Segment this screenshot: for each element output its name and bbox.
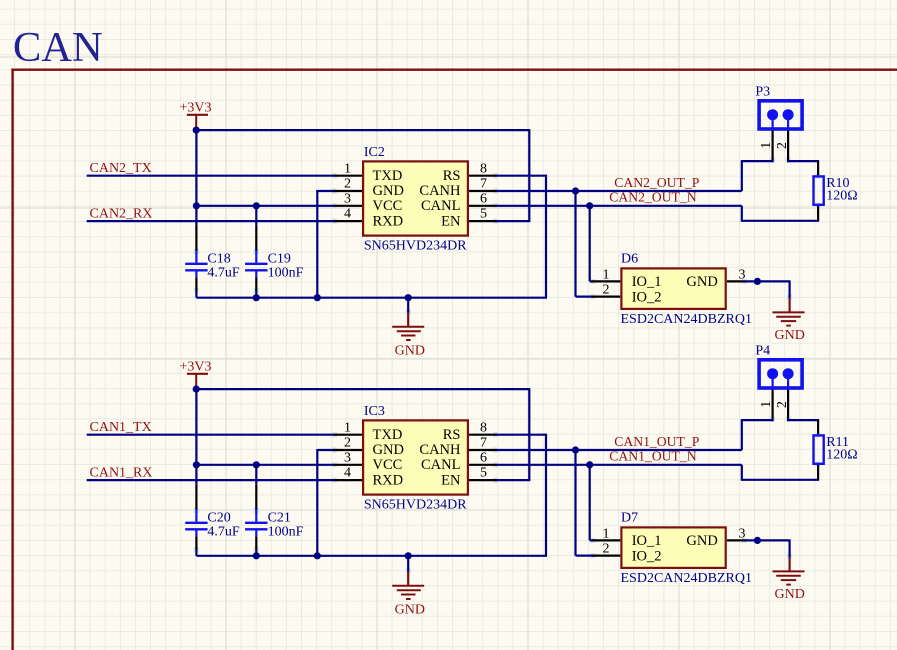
svg-text:ESD2CAN24DBZRQ1: ESD2CAN24DBZRQ1 bbox=[621, 312, 752, 327]
D6 pin 2 IO_2 bbox=[592, 283, 662, 306]
wire CANH to D7 IO_2 bbox=[576, 450, 593, 556]
ground GND (right bottom) bbox=[773, 557, 805, 602]
svg-text:2: 2 bbox=[344, 436, 351, 451]
svg-text:IO_2: IO_2 bbox=[632, 548, 662, 564]
svg-text:CAN1_OUT_N: CAN1_OUT_N bbox=[609, 449, 697, 464]
svg-text:2: 2 bbox=[603, 542, 610, 557]
svg-text:IO_1: IO_1 bbox=[632, 533, 662, 549]
svg-text:GND: GND bbox=[395, 344, 425, 359]
svg-text:IC3: IC3 bbox=[364, 404, 385, 419]
capacitor C20 bbox=[185, 484, 207, 556]
svg-text:100nF: 100nF bbox=[268, 525, 304, 540]
P3 pin 1 bbox=[758, 118, 773, 162]
IC2 pin 5 EN bbox=[441, 207, 496, 230]
svg-text:2: 2 bbox=[603, 283, 610, 298]
svg-text:4: 4 bbox=[344, 207, 351, 222]
svg-text:P3: P3 bbox=[755, 84, 770, 99]
wire P3.2 to R10 top bbox=[787, 160, 819, 162]
svg-text:RXD: RXD bbox=[373, 213, 404, 229]
svg-text:VCC: VCC bbox=[373, 457, 403, 473]
svg-text:1: 1 bbox=[758, 401, 773, 408]
svg-text:4: 4 bbox=[344, 466, 351, 481]
IC3 pin 1 TXD bbox=[334, 420, 403, 443]
svg-text:3: 3 bbox=[739, 526, 746, 541]
wire GND pin to rail bbox=[317, 190, 334, 298]
svg-text:1: 1 bbox=[758, 142, 773, 149]
svg-text:7: 7 bbox=[480, 436, 487, 451]
svg-text:7: 7 bbox=[480, 177, 487, 192]
svg-text:1: 1 bbox=[603, 267, 610, 282]
svg-text:CANL: CANL bbox=[421, 198, 460, 214]
wire CAN2_OUT_P (CANH) bbox=[497, 190, 742, 192]
IC3 pin 2 GND bbox=[334, 436, 404, 459]
wire VCC bbox=[196, 205, 333, 207]
wire GND pin to rail bbox=[317, 449, 334, 556]
wire P4.1 to CAN1_OUT_P bbox=[742, 419, 774, 450]
svg-text:1: 1 bbox=[344, 420, 351, 435]
power +3V3 (bottom) bbox=[180, 360, 212, 389]
power +3V3 (top) bbox=[180, 101, 212, 130]
wire D6 GND pin bbox=[746, 280, 790, 298]
wire EN pullup vertical bbox=[528, 388, 530, 480]
svg-text:1: 1 bbox=[344, 161, 351, 176]
svg-text:CANH: CANH bbox=[419, 442, 461, 458]
svg-text:1: 1 bbox=[603, 526, 610, 541]
junction D7 GND wire bbox=[754, 537, 761, 544]
D7 pin 3 GND bbox=[686, 526, 745, 549]
svg-text:100nF: 100nF bbox=[268, 266, 304, 281]
wire RS to ground vertical bbox=[545, 175, 547, 298]
svg-text:RXD: RXD bbox=[373, 472, 404, 488]
P4 pin 1 bbox=[758, 377, 773, 421]
junction CANH / ESD bbox=[572, 187, 579, 194]
junction VCC / C21 bbox=[253, 461, 260, 468]
wire CAN2_RX bbox=[87, 220, 334, 222]
wire D7 GND pin bbox=[746, 539, 790, 557]
P4 pin 2 bbox=[774, 377, 789, 421]
ground GND (right top) bbox=[773, 298, 805, 343]
svg-text:3: 3 bbox=[739, 267, 746, 282]
wire CANL to D7 IO_1 bbox=[590, 465, 593, 541]
IC3 pin 7 CANH bbox=[419, 436, 496, 459]
svg-text:CAN2_OUT_N: CAN2_OUT_N bbox=[609, 190, 697, 205]
wire EN bbox=[497, 220, 531, 222]
junction CANL / ESD bbox=[586, 202, 593, 209]
wire CAN1_OUT_N (CANL) bbox=[497, 464, 742, 466]
svg-text:CAN2_OUT_P: CAN2_OUT_P bbox=[614, 175, 700, 190]
wire EN bbox=[497, 479, 531, 481]
IC2 pin 8 RS bbox=[443, 161, 497, 184]
P3 pin 2 bbox=[774, 118, 789, 162]
IC IC3 body bbox=[363, 420, 468, 494]
IC3 pin 5 EN bbox=[441, 466, 496, 489]
svg-text:5: 5 bbox=[480, 466, 487, 481]
ground GND (center bottom) bbox=[392, 556, 425, 618]
wire P3.1 to CAN2_OUT_P bbox=[742, 160, 774, 191]
junction +3V3 rail bbox=[193, 127, 200, 134]
wire +3V3 rail bbox=[196, 129, 529, 131]
wire CAN1_RX bbox=[87, 479, 334, 481]
svg-text:IC2: IC2 bbox=[364, 145, 385, 160]
ESD diode D7 body bbox=[621, 527, 725, 568]
D7 pin 2 IO_2 bbox=[592, 542, 662, 565]
svg-text:CANL: CANL bbox=[421, 457, 460, 473]
junction VCC / C20 bbox=[193, 461, 200, 468]
svg-text:GND: GND bbox=[395, 603, 425, 618]
svg-text:D6: D6 bbox=[621, 252, 638, 267]
svg-text:CAN2_RX: CAN2_RX bbox=[90, 206, 153, 221]
svg-text:GND: GND bbox=[373, 442, 404, 458]
svg-text:2: 2 bbox=[344, 177, 351, 192]
wire P4.2 to R11 top bbox=[787, 419, 819, 421]
svg-text:GND: GND bbox=[775, 328, 805, 343]
svg-text:3: 3 bbox=[344, 191, 351, 206]
svg-text:3: 3 bbox=[344, 450, 351, 465]
IC2 pin 2 GND bbox=[334, 177, 404, 200]
svg-text:6: 6 bbox=[480, 450, 487, 465]
IC IC2 body bbox=[363, 161, 468, 235]
svg-text:8: 8 bbox=[480, 161, 487, 176]
svg-text:120Ω: 120Ω bbox=[826, 189, 857, 204]
svg-text:GND: GND bbox=[373, 183, 404, 199]
ESD diode D6 body bbox=[621, 268, 725, 309]
svg-text:IO_2: IO_2 bbox=[632, 289, 662, 305]
junction CANL / ESD bbox=[586, 461, 593, 468]
svg-text:IO_1: IO_1 bbox=[632, 274, 662, 290]
wire CAN1_OUT_N to R11 bottom bbox=[742, 465, 819, 481]
svg-text:2: 2 bbox=[774, 142, 789, 149]
IC3 pin 4 RXD bbox=[334, 466, 404, 489]
wire ground rail bbox=[196, 555, 547, 557]
svg-text:TXD: TXD bbox=[373, 427, 403, 443]
svg-text:5: 5 bbox=[480, 207, 487, 222]
wire ground rail bbox=[196, 297, 547, 299]
capacitor C21 bbox=[245, 465, 267, 556]
junction VCC / C19 bbox=[253, 202, 260, 209]
D6 pin 1 IO_1 bbox=[592, 267, 662, 290]
junction ground rail / GND pin bbox=[314, 552, 321, 559]
wire CANH to D6 IO_2 bbox=[576, 191, 593, 297]
wire RS to ground vertical bbox=[545, 434, 547, 556]
svg-text:SN65HVD234DR: SN65HVD234DR bbox=[364, 498, 467, 513]
junction ground rail / GND symbol bbox=[405, 552, 412, 559]
svg-text:P4: P4 bbox=[755, 343, 770, 358]
svg-text:CAN1_RX: CAN1_RX bbox=[90, 465, 153, 480]
junction ground rail / C19 bbox=[253, 294, 260, 301]
junction ground rail / GND symbol bbox=[405, 294, 412, 301]
svg-text:C21: C21 bbox=[268, 510, 291, 525]
junction D6 GND wire bbox=[754, 278, 761, 285]
wire VCC bbox=[196, 464, 333, 466]
svg-text:GND: GND bbox=[686, 533, 717, 549]
junction VCC / C18 bbox=[193, 202, 200, 209]
D6 pin 3 GND bbox=[686, 267, 745, 290]
svg-text:C20: C20 bbox=[207, 510, 230, 525]
junction ground rail / C21 bbox=[253, 552, 260, 559]
wire CAN2_TX bbox=[87, 175, 334, 177]
svg-text:EN: EN bbox=[441, 213, 461, 229]
wire RS bbox=[497, 175, 548, 177]
junction ground rail / GND pin bbox=[314, 294, 321, 301]
wire CAN1_TX bbox=[87, 434, 334, 436]
svg-text:+3V3: +3V3 bbox=[180, 101, 212, 116]
svg-text:GND: GND bbox=[775, 587, 805, 602]
wire +3V3 vertical to C18 bbox=[195, 130, 197, 225]
wire +3V3 vertical to C20 bbox=[195, 389, 197, 484]
svg-text:GND: GND bbox=[686, 274, 717, 290]
svg-text:CANH: CANH bbox=[419, 183, 461, 199]
IC2 pin 4 RXD bbox=[334, 207, 404, 230]
IC3 pin 6 CANL bbox=[421, 450, 496, 473]
svg-text:2: 2 bbox=[774, 401, 789, 408]
connector P4 bbox=[759, 360, 802, 388]
svg-text:8: 8 bbox=[480, 420, 487, 435]
connector P3 bbox=[759, 101, 802, 129]
svg-text:CAN2_TX: CAN2_TX bbox=[90, 161, 152, 176]
IC3 pin 3 VCC bbox=[334, 450, 403, 473]
IC2 pin 3 VCC bbox=[334, 191, 403, 214]
IC2 pin 1 TXD bbox=[334, 161, 403, 184]
svg-text:TXD: TXD bbox=[373, 168, 403, 184]
junction +3V3 rail bbox=[193, 386, 200, 393]
capacitor C18 bbox=[185, 225, 207, 298]
capacitor C19 bbox=[245, 206, 267, 298]
svg-text:C19: C19 bbox=[268, 251, 291, 266]
svg-text:RS: RS bbox=[443, 427, 461, 443]
svg-text:4.7uF: 4.7uF bbox=[207, 266, 240, 281]
svg-text:RS: RS bbox=[443, 168, 461, 184]
IC3 pin 8 RS bbox=[443, 420, 497, 443]
wire RS bbox=[497, 434, 548, 436]
svg-text:C18: C18 bbox=[207, 251, 230, 266]
ground GND (center top) bbox=[392, 298, 425, 359]
svg-text:120Ω: 120Ω bbox=[826, 448, 857, 463]
wire CAN2_OUT_N to R10 bottom bbox=[742, 206, 819, 222]
wire CAN1_OUT_P (CANH) bbox=[497, 449, 742, 451]
svg-text:6: 6 bbox=[480, 191, 487, 206]
svg-text:CAN1_TX: CAN1_TX bbox=[90, 420, 152, 435]
D7 pin 1 IO_1 bbox=[592, 526, 662, 549]
svg-text:+3V3: +3V3 bbox=[180, 360, 212, 375]
wire CAN2_OUT_N (CANL) bbox=[497, 205, 742, 207]
wire CANL to D6 IO_1 bbox=[590, 206, 593, 282]
resistor R10 bbox=[814, 161, 824, 221]
junction CANH / ESD bbox=[572, 446, 579, 453]
svg-text:CAN: CAN bbox=[13, 24, 103, 71]
wire EN pullup vertical bbox=[528, 129, 530, 221]
svg-text:SN65HVD234DR: SN65HVD234DR bbox=[364, 239, 467, 254]
svg-text:D7: D7 bbox=[621, 511, 638, 526]
IC2 pin 6 CANL bbox=[421, 191, 496, 214]
wire +3V3 rail bbox=[196, 388, 529, 390]
resistor R11 bbox=[814, 420, 824, 480]
svg-text:4.7uF: 4.7uF bbox=[207, 525, 240, 540]
svg-text:CAN1_OUT_P: CAN1_OUT_P bbox=[614, 434, 700, 449]
svg-text:VCC: VCC bbox=[373, 198, 403, 214]
IC2 pin 7 CANH bbox=[419, 177, 496, 200]
svg-text:ESD2CAN24DBZRQ1: ESD2CAN24DBZRQ1 bbox=[621, 571, 752, 586]
svg-text:EN: EN bbox=[441, 472, 461, 488]
